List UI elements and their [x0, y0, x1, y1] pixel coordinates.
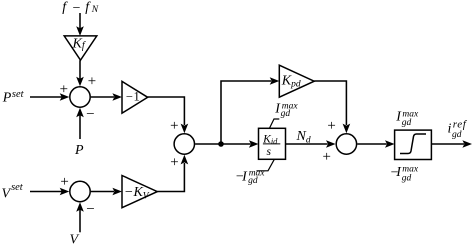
- svg-text:+: +: [321, 149, 331, 165]
- svg-text:−: −: [85, 107, 95, 123]
- svg-text:+: +: [59, 81, 69, 97]
- svg-text:gd: gd: [281, 109, 291, 119]
- svg-text:ref: ref: [453, 119, 468, 131]
- svg-text:−: −: [72, 1, 81, 16]
- svg-text:+: +: [169, 118, 179, 134]
- svg-text:f: f: [62, 0, 68, 15]
- svg-text:I: I: [241, 169, 248, 184]
- svg-text:i: i: [448, 122, 452, 137]
- svg-text:Vset: Vset: [2, 182, 24, 201]
- svg-text:+: +: [59, 174, 69, 190]
- svg-text:gd: gd: [402, 118, 412, 128]
- svg-text:V: V: [70, 233, 80, 245]
- svg-text:s: s: [267, 146, 272, 158]
- svg-text:f: f: [85, 0, 91, 15]
- svg-text:N: N: [91, 5, 99, 15]
- svg-text:gd: gd: [402, 173, 412, 183]
- svg-text:+: +: [169, 155, 179, 171]
- svg-text:+: +: [87, 74, 97, 90]
- svg-text:Kid: Kid: [262, 133, 278, 146]
- svg-text:P: P: [74, 143, 84, 158]
- svg-text:−1: −1: [125, 90, 140, 104]
- svg-text:Nd: Nd: [296, 129, 311, 146]
- svg-text:Pset: Pset: [2, 89, 25, 106]
- svg-text:gd: gd: [452, 130, 462, 140]
- svg-text:+: +: [326, 118, 336, 134]
- svg-text:gd: gd: [248, 176, 258, 186]
- svg-text:−: −: [85, 202, 95, 218]
